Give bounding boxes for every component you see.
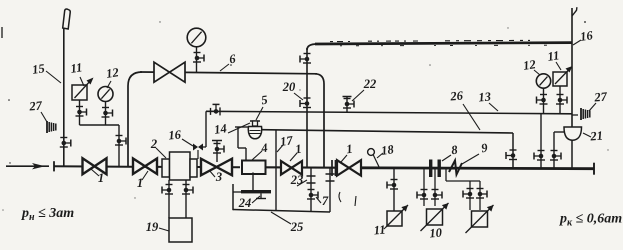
svg-text:22: 22 [363, 77, 377, 91]
svg-text:15: 15 [31, 61, 45, 77]
svg-text:20: 20 [282, 80, 296, 94]
svg-text:23: 23 [290, 173, 304, 187]
svg-text:27: 27 [28, 98, 43, 113]
svg-text:27: 27 [593, 89, 608, 104]
svg-text:12: 12 [522, 57, 536, 73]
svg-text:10: 10 [429, 225, 443, 240]
svg-text:1: 1 [137, 176, 143, 190]
svg-text:11: 11 [547, 48, 561, 64]
svg-text:25: 25 [290, 220, 304, 234]
svg-text:16: 16 [168, 127, 182, 142]
svg-text:12: 12 [105, 65, 119, 81]
svg-text:11: 11 [373, 223, 386, 238]
svg-text:2: 2 [150, 137, 157, 151]
svg-text:13: 13 [478, 89, 492, 104]
svg-text:11: 11 [70, 60, 84, 76]
svg-text:7: 7 [322, 194, 329, 208]
svg-text:pн ≤ 3ат: pн ≤ 3ат [21, 206, 74, 223]
svg-text:21: 21 [589, 128, 604, 143]
svg-text:19: 19 [146, 220, 159, 234]
svg-text:3: 3 [215, 170, 222, 184]
svg-text:14: 14 [213, 121, 227, 137]
svg-text:24: 24 [238, 196, 252, 210]
svg-text:1: 1 [98, 171, 104, 185]
svg-text:26: 26 [449, 88, 464, 103]
